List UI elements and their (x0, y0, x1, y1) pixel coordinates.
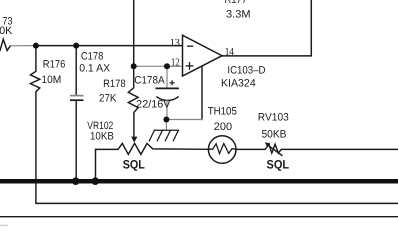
svg-text:22/16V: 22/16V (136, 99, 171, 111)
svg-text:R176: R176 (43, 58, 66, 70)
svg-text:SQL: SQL (123, 158, 146, 172)
svg-text:0.1 AX: 0.1 AX (79, 63, 110, 75)
svg-text:C178: C178 (81, 50, 104, 62)
svg-text:10KB: 10KB (90, 130, 114, 142)
svg-text:12: 12 (171, 57, 180, 69)
svg-text:0K: 0K (0, 25, 13, 37)
svg-text:13: 13 (170, 37, 180, 49)
svg-text:50KB: 50KB (262, 129, 287, 141)
svg-text:10M: 10M (41, 74, 61, 86)
svg-text:TH105: TH105 (208, 106, 237, 118)
svg-text:200: 200 (214, 121, 232, 133)
svg-text:RV103: RV103 (258, 112, 289, 124)
svg-text:IC103–D: IC103–D (227, 64, 265, 76)
svg-text:SQL: SQL (267, 158, 290, 172)
svg-text:C178A: C178A (134, 75, 165, 87)
svg-text:R177: R177 (225, 0, 248, 6)
svg-text:KIA324: KIA324 (221, 78, 256, 90)
svg-text:3.3M: 3.3M (226, 9, 251, 21)
svg-text:14: 14 (225, 46, 235, 58)
svg-text:R178: R178 (103, 78, 126, 90)
svg-text:27K: 27K (99, 92, 117, 104)
